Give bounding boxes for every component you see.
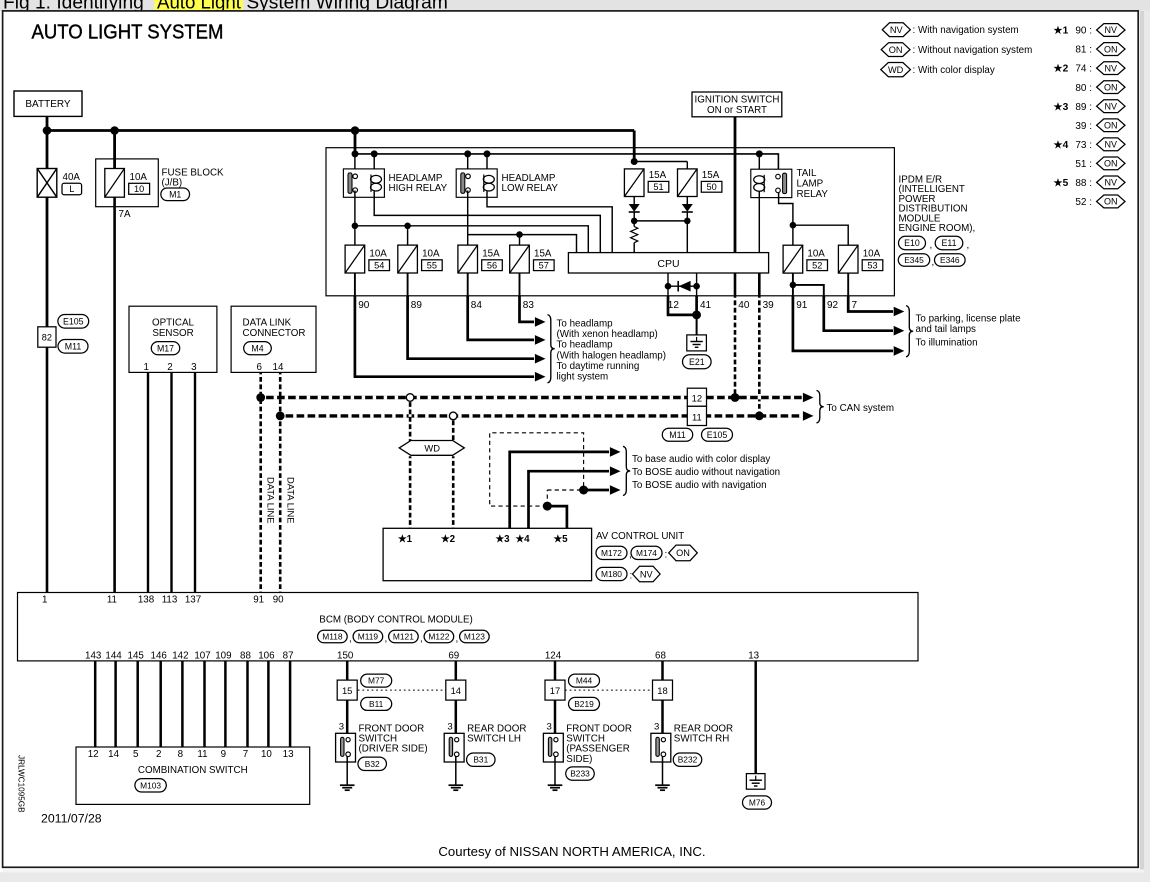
- svg-text:E21: E21: [689, 357, 705, 367]
- connector E346: [935, 254, 966, 267]
- fuse 15A 50: [678, 169, 698, 197]
- svg-text:52: 52: [812, 260, 822, 270]
- brace CAN system: [817, 390, 824, 423]
- wire: AV star5 to junction: [547, 506, 567, 528]
- svg-text:M103: M103: [140, 780, 161, 790]
- svg-text:SIDE): SIDE): [566, 754, 592, 765]
- svg-text:★5: ★5: [553, 534, 568, 545]
- junction at fuse block drop: [110, 126, 119, 135]
- junction DLC14/CAN-L: [276, 412, 285, 421]
- wire: CAN-L to WD: [452, 416, 455, 441]
- svg-text:13: 13: [283, 749, 294, 760]
- svg-text:B232: B232: [678, 755, 698, 765]
- wire: AV star3 to base audio arrow: [510, 452, 609, 528]
- svg-text:2: 2: [167, 362, 172, 373]
- svg-text:,: ,: [420, 634, 423, 645]
- wire: BCM to combination switch at x=204.5: [203, 661, 206, 747]
- connector box 15: [337, 680, 357, 700]
- svg-text:10A: 10A: [369, 248, 387, 259]
- svg-text:HEADLAMP: HEADLAMP: [389, 173, 443, 184]
- svg-text::: :: [630, 571, 633, 582]
- svg-text:M77: M77: [368, 676, 385, 686]
- svg-text:ON: ON: [1104, 197, 1118, 207]
- svg-text:69: 69: [448, 650, 459, 661]
- svg-text:M172: M172: [601, 548, 622, 558]
- svg-text:To daytime running: To daytime running: [557, 361, 640, 372]
- svg-text:52 :: 52 :: [1075, 197, 1092, 208]
- wire: connector 82 to BCM pin 1: [46, 347, 49, 592]
- svg-text:B233: B233: [570, 769, 590, 779]
- fusible link 40A L: [37, 169, 57, 198]
- svg-text:OPTICAL: OPTICAL: [152, 318, 194, 329]
- svg-text:40A: 40A: [63, 172, 81, 183]
- svg-text:3: 3: [654, 722, 659, 733]
- svg-text:M123: M123: [464, 632, 485, 642]
- svg-text:(DRIVER SIDE): (DRIVER SIDE): [359, 744, 428, 755]
- wire: bus to tail relay coil: [758, 154, 760, 175]
- svg-text:142: 142: [172, 650, 188, 661]
- svg-text:COMBINATION SWITCH: COMBINATION SWITCH: [138, 765, 248, 776]
- junction: high relay contact feed: [352, 150, 359, 157]
- svg-text:90: 90: [358, 300, 370, 311]
- wire: BCM to combination switch at x=290.1: [289, 661, 292, 747]
- junction pin 91/92 split: [790, 282, 797, 289]
- svg-text:113: 113: [162, 595, 178, 606]
- svg-text:146: 146: [151, 650, 168, 661]
- wire: BCM to connector 18: [661, 661, 664, 680]
- svg-text:73 :: 73 :: [1075, 140, 1092, 151]
- svg-text:3: 3: [547, 722, 552, 733]
- svg-text:,: ,: [930, 240, 933, 251]
- connector M44: [569, 674, 600, 687]
- fuse 15A 57: [510, 245, 530, 273]
- wire: low relay contact to fuse 56: [467, 191, 469, 246]
- wire: door switch to ground: [346, 756, 348, 785]
- svg-text:15A: 15A: [482, 248, 500, 259]
- legend hexagon ON: [881, 43, 910, 57]
- svg-text:54: 54: [374, 260, 384, 270]
- svg-text:light system: light system: [557, 372, 609, 383]
- svg-text:NV: NV: [890, 25, 904, 35]
- svg-text:M17: M17: [157, 343, 174, 353]
- svg-text:91: 91: [253, 595, 264, 606]
- wire: fuse to IPDM pin 83: [519, 273, 521, 296]
- wire: BCM to connector 17: [554, 661, 557, 680]
- junction: low relay coil feed: [484, 150, 491, 157]
- svg-text:15A: 15A: [649, 170, 667, 181]
- svg-text:2: 2: [156, 749, 161, 760]
- svg-text:JRLWC1095GB: JRLWC1095GB: [17, 755, 26, 813]
- wire: CAN-H to WD: [409, 398, 412, 442]
- connector M11 (CAN): [662, 428, 692, 441]
- svg-text:★4: ★4: [1054, 140, 1069, 151]
- wire: DLC pin 14 data line to CAN-H and BCM 90: [279, 372, 282, 592]
- svg-text:E346: E346: [940, 255, 960, 265]
- connector M11: [58, 340, 88, 354]
- svg-text:7: 7: [852, 300, 858, 311]
- wire: fuse to IPDM pin 90: [354, 273, 356, 296]
- svg-text:★4: ★4: [515, 534, 530, 545]
- brace headlamp outputs: [548, 315, 555, 383]
- wire: BCM to combination switch at x=95.2: [94, 661, 97, 747]
- svg-text:10: 10: [134, 184, 144, 194]
- svg-text:40: 40: [738, 300, 750, 311]
- svg-text:39 :: 39 :: [1075, 121, 1092, 132]
- connector 82 (E105/M11): [38, 327, 56, 347]
- connector M77: [361, 674, 392, 687]
- svg-text:10A: 10A: [130, 172, 148, 183]
- wire: connector to door switch: [346, 700, 349, 737]
- junction fuse 52 feed: [790, 222, 797, 229]
- svg-text:L: L: [69, 184, 74, 194]
- wire: connector to door switch: [455, 700, 458, 737]
- svg-text:NV: NV: [1105, 101, 1118, 111]
- connector M76: [743, 796, 772, 809]
- connector box 11 on CAN-L: [687, 406, 706, 425]
- svg-text:SWITCH RH: SWITCH RH: [674, 734, 730, 745]
- svg-text:M174: M174: [636, 548, 657, 558]
- ground under B232: [655, 784, 670, 786]
- svg-text:83: 83: [523, 300, 535, 311]
- junction fuse 51 feed: [631, 158, 638, 165]
- svg-text:109: 109: [215, 650, 231, 661]
- battery: [14, 91, 82, 116]
- wire: IPDM internal supply bus: [355, 154, 778, 176]
- svg-text:(With xenon headlamp): (With xenon headlamp): [557, 329, 658, 340]
- AV control unit box: [383, 528, 591, 580]
- svg-text:81 :: 81 :: [1075, 45, 1092, 56]
- svg-text:13: 13: [748, 650, 759, 661]
- svg-text:84: 84: [471, 300, 483, 311]
- fuse 10A 55: [398, 245, 418, 273]
- wire: fusible link to connector 82: [46, 197, 49, 327]
- svg-text:10A: 10A: [807, 248, 825, 259]
- wire: WD to AV unit pin star2: [452, 456, 455, 528]
- svg-text:B31: B31: [473, 755, 488, 765]
- svg-text:50: 50: [706, 182, 716, 192]
- wire: pin 92 to tail lamps: [824, 296, 893, 331]
- svg-text:NV: NV: [1105, 63, 1118, 73]
- connector E345: [898, 254, 929, 267]
- junction at fuse 54: [352, 223, 359, 230]
- wire: BCM to connector 15: [346, 661, 349, 680]
- ground under B32: [340, 784, 355, 786]
- wire: bus to fuse block: [113, 131, 116, 169]
- svg-text:88: 88: [240, 650, 251, 661]
- svg-text:DATA LINE: DATA LINE: [266, 477, 277, 524]
- dashed wire star5 up: [546, 490, 548, 506]
- svg-text:★3: ★3: [495, 534, 510, 545]
- connector M1: [161, 188, 190, 201]
- wire: pin 91 to illumination: [793, 296, 893, 351]
- svg-text:68: 68: [655, 650, 666, 661]
- svg-text:6: 6: [256, 362, 262, 373]
- svg-text:12: 12: [692, 393, 702, 404]
- junction: low relay contact feed: [464, 150, 471, 157]
- svg-text:,: ,: [456, 634, 459, 645]
- svg-text:To CAN system: To CAN system: [827, 403, 895, 414]
- wire: battery to bus: [46, 116, 49, 130]
- wire: BCM to combination switch at x=225.4: [224, 661, 227, 747]
- ground E21: [687, 335, 707, 351]
- svg-text:WD: WD: [424, 443, 440, 454]
- fuse 15A 56: [458, 245, 478, 273]
- hexagon ON (AV): [669, 545, 698, 561]
- svg-text:LAMP: LAMP: [797, 178, 824, 189]
- svg-text:★1: ★1: [398, 534, 413, 545]
- hexagon NV (AV): [633, 566, 661, 582]
- optical sensor box M17: [129, 306, 217, 372]
- svg-text:E105: E105: [707, 430, 728, 440]
- hexagon WD option: [399, 441, 464, 456]
- svg-text:M44: M44: [576, 676, 593, 686]
- svg-text:M4: M4: [251, 343, 263, 353]
- svg-text:15: 15: [342, 685, 352, 696]
- svg-text:: With color display: : With color display: [913, 65, 995, 76]
- svg-text:B219: B219: [574, 699, 594, 709]
- junction at fuse 57: [516, 231, 523, 238]
- svg-text:15A: 15A: [702, 170, 720, 181]
- svg-text:145: 145: [128, 650, 145, 661]
- svg-text:NV: NV: [1105, 25, 1118, 35]
- junction on dashed frame right: [579, 486, 588, 495]
- svg-text:M11: M11: [669, 430, 686, 440]
- svg-text:2011/07/28: 2011/07/28: [41, 811, 102, 825]
- wire: pin 7 to parking lamps: [848, 296, 893, 312]
- junction pin39/CAN-L: [755, 412, 764, 421]
- svg-text:87: 87: [283, 650, 294, 661]
- svg-text:51 :: 51 :: [1075, 159, 1092, 170]
- svg-text:12: 12: [668, 300, 680, 311]
- wire: bus to high relay contact: [354, 154, 356, 174]
- svg-text:7: 7: [243, 749, 248, 760]
- wire: fuse 50 diode to CPU: [686, 221, 688, 253]
- connector E105: [58, 315, 89, 329]
- svg-text:E345: E345: [904, 255, 924, 265]
- svg-text:39: 39: [763, 300, 775, 311]
- dotted link 15-14: [358, 689, 446, 691]
- svg-text:15A: 15A: [534, 248, 552, 259]
- svg-text:11: 11: [197, 749, 207, 760]
- junction diode rail right: [684, 218, 691, 225]
- ground box M76: [746, 774, 765, 790]
- svg-text:107: 107: [194, 650, 210, 661]
- svg-text:92: 92: [827, 300, 839, 311]
- wire: fuse 56/57 feed rail to CPU: [468, 235, 577, 253]
- connector M103: [135, 779, 166, 792]
- svg-text:To illumination: To illumination: [916, 337, 978, 348]
- svg-text:: With navigation system: : With navigation system: [913, 25, 1019, 36]
- wire: BCM to combination switch at x=247.5: [246, 661, 249, 747]
- svg-text:90: 90: [273, 595, 284, 606]
- svg-text:HEADLAMP: HEADLAMP: [502, 173, 556, 184]
- svg-text:ENGINE ROOM),: ENGINE ROOM),: [899, 223, 976, 234]
- wire: BCM to connector 14: [455, 661, 458, 680]
- svg-text:82: 82: [42, 332, 52, 342]
- wire: pin 90 output: [355, 296, 534, 377]
- wire: ignition switch to CPU: [734, 117, 737, 253]
- svg-text:ON or START: ON or START: [707, 105, 767, 116]
- svg-text:: Without navigation system: : Without navigation system: [913, 45, 1033, 56]
- svg-text:51: 51: [653, 182, 663, 192]
- svg-text:41: 41: [700, 300, 712, 311]
- svg-text:To BOSE audio without navigati: To BOSE audio without navigation: [632, 467, 780, 478]
- ground under B233: [548, 784, 563, 786]
- svg-text:M119: M119: [358, 632, 379, 642]
- connector box 12 on CAN-H: [687, 388, 706, 406]
- wire: door switch to ground: [554, 756, 556, 785]
- svg-text:11: 11: [107, 595, 117, 606]
- svg-text:★5: ★5: [1054, 178, 1069, 189]
- svg-text:55: 55: [427, 260, 437, 270]
- svg-text:E10: E10: [904, 238, 920, 248]
- svg-text:,: ,: [349, 634, 352, 645]
- wire: CAN line (pin 39) to CAN-L: [758, 296, 761, 416]
- wire: pin 12 to ground: [668, 296, 697, 315]
- wire: AV star4 to BOSE audio arrow: [529, 471, 610, 528]
- connector M172: [596, 546, 627, 559]
- door switch B233: [543, 733, 563, 762]
- wire: fuse to IPDM pin 89: [407, 273, 409, 296]
- svg-text:1: 1: [143, 362, 148, 373]
- svg-text:3: 3: [447, 722, 452, 733]
- wire: low relay coil to CPU: [487, 192, 612, 253]
- svg-text:To parking, license plate: To parking, license plate: [916, 314, 1022, 325]
- svg-text:NV: NV: [1105, 140, 1118, 150]
- svg-text:88 :: 88 :: [1075, 178, 1092, 189]
- svg-text:CONNECTOR: CONNECTOR: [243, 328, 306, 339]
- svg-text:AUTO LIGHT SYSTEM: AUTO LIGHT SYSTEM: [32, 21, 224, 44]
- svg-text:143: 143: [85, 650, 102, 661]
- connector box 14: [446, 680, 466, 700]
- svg-text:M76: M76: [749, 798, 766, 808]
- svg-text:10A: 10A: [863, 248, 881, 259]
- svg-text:SWITCH LH: SWITCH LH: [467, 734, 521, 745]
- svg-text:M11: M11: [65, 341, 82, 351]
- connector B219: [569, 697, 600, 710]
- wire: pin 83 to xenon headlamp: [520, 296, 535, 322]
- diode under fuse 51: [633, 197, 635, 205]
- svg-text:E11: E11: [942, 238, 957, 248]
- connector E10: [899, 236, 926, 249]
- fuse 10A 10 in fuse block: [105, 169, 125, 198]
- svg-text:HIGH RELAY: HIGH RELAY: [389, 183, 448, 194]
- combination switch box: [76, 747, 310, 804]
- svg-text:BCM (BODY CONTROL MODULE): BCM (BODY CONTROL MODULE): [319, 615, 473, 626]
- svg-text:,: ,: [967, 240, 970, 251]
- wire: bus to high relay coil: [373, 154, 375, 175]
- svg-text:To base audio with color displ: To base audio with color display: [632, 454, 770, 465]
- connector box 17: [545, 680, 565, 700]
- wire: CAN line (pin 40) to CAN-H: [734, 296, 737, 398]
- svg-text:8: 8: [178, 749, 184, 760]
- svg-text:,: ,: [385, 634, 388, 645]
- wire: bus to low relay coil: [486, 154, 488, 175]
- connector box 18: [653, 680, 673, 700]
- connector E11: [935, 236, 963, 249]
- wire: optical sensor 2 to BCM 113: [170, 372, 172, 592]
- wire: main battery bus: [47, 129, 634, 132]
- wire: fuse block to BCM pin 11 (7A): [113, 197, 116, 592]
- svg-text:M118: M118: [322, 632, 343, 642]
- svg-text:18: 18: [657, 685, 667, 696]
- svg-text:B32: B32: [365, 759, 380, 769]
- svg-text:12: 12: [88, 749, 99, 760]
- wire: tail relay contact to fuses 52/53: [779, 193, 793, 245]
- wire: CPU to pin 39 (CAN): [758, 273, 761, 296]
- svg-text:144: 144: [105, 650, 122, 661]
- svg-text:WD: WD: [888, 65, 904, 75]
- wire: BCM to combination switch at x=160.7: [159, 661, 162, 747]
- diode under fuse 50: [686, 197, 688, 205]
- relay: headlamp high relay: [343, 169, 384, 197]
- wire: feed rail fuses 51/50: [634, 161, 687, 163]
- fuse 10A 54: [345, 245, 365, 273]
- wire: bus drop to fuses 51/50: [633, 131, 636, 162]
- svg-text:11: 11: [692, 411, 702, 422]
- svg-text:,: ,: [932, 257, 935, 268]
- CPU box: [568, 253, 768, 273]
- svg-text:3: 3: [339, 722, 344, 733]
- junction star5 on dashed frame: [543, 502, 552, 511]
- svg-text:(With halogen headlamp): (With halogen headlamp): [557, 350, 666, 361]
- svg-text:B11: B11: [369, 699, 384, 709]
- svg-text:★3: ★3: [1054, 102, 1069, 113]
- junction: tail relay coil feed: [756, 150, 763, 157]
- junction diode rail left: [631, 218, 638, 225]
- wire: WD to AV unit pin star1: [409, 456, 412, 528]
- svg-text:57: 57: [539, 260, 549, 270]
- svg-text:RELAY: RELAY: [797, 189, 829, 200]
- wire: CPU to pin 41: [696, 273, 698, 296]
- junction DLC6/CAN-H: [256, 393, 265, 402]
- resistor to CPU: [633, 221, 635, 227]
- svg-text:and tail lamps: and tail lamps: [916, 324, 977, 335]
- svg-text:124: 124: [545, 650, 562, 661]
- svg-text:BATTERY: BATTERY: [25, 99, 71, 110]
- wire: optical sensor 3 to BCM 137: [194, 372, 196, 592]
- wire: door switch to ground: [662, 756, 664, 785]
- svg-text:14: 14: [451, 685, 461, 696]
- junction at battery drop: [43, 126, 52, 135]
- svg-text:91: 91: [796, 300, 808, 311]
- svg-text:14: 14: [273, 362, 284, 373]
- wire: fuse 53 to pin 7: [847, 273, 849, 296]
- fuse 10A 52: [783, 245, 803, 273]
- junction pins 12/41: [692, 311, 701, 320]
- wire: BCM to combination switch at x=137.7: [136, 661, 139, 747]
- dotted link 17-18: [565, 689, 653, 691]
- wire: tail relay coil to CPU: [758, 191, 760, 253]
- wire: high relay coil to CPU: [374, 192, 600, 253]
- svg-text:10A: 10A: [422, 248, 440, 259]
- junction: high relay coil feed: [371, 150, 378, 157]
- brace audio outputs: [623, 446, 630, 495]
- wire: pin 84 to halogen headlamp: [468, 296, 534, 340]
- svg-text:14: 14: [108, 749, 119, 760]
- wire: bus drop into IPDM: [354, 131, 357, 154]
- wire: pin 89 to daytime running lights: [408, 296, 534, 359]
- svg-text:17: 17: [550, 685, 560, 696]
- wire: rail to fuse 57: [519, 235, 521, 246]
- wire: BCM pin 13 to ground M76: [754, 661, 757, 774]
- ignition switch box: [692, 92, 782, 117]
- wire: BCM to combination switch at x=182.4: [181, 661, 184, 747]
- svg-text:106: 106: [258, 650, 275, 661]
- svg-text:150: 150: [337, 650, 354, 661]
- wire: BCM to combination switch at x=268.4: [267, 661, 270, 747]
- svg-text:M180: M180: [601, 569, 622, 579]
